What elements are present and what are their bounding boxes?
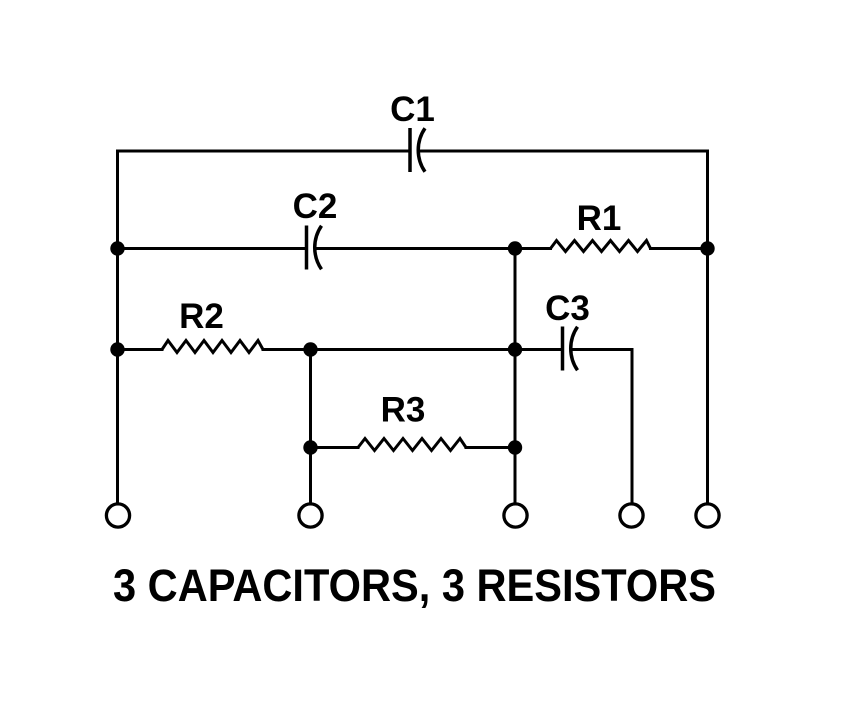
resistor R1 <box>551 241 651 252</box>
wire row3 right of C3 <box>574 348 633 351</box>
wire column D down <box>631 350 634 504</box>
wire column B down <box>309 350 312 504</box>
node junction dot row4 left <box>303 440 317 454</box>
terminal 4 <box>620 504 643 527</box>
node junction dot row2 right <box>700 241 714 255</box>
capacitor C1 <box>410 128 425 172</box>
node junction dot row3 right <box>508 342 522 356</box>
capacitor C2 <box>307 226 322 270</box>
wire top rail left of C1 <box>118 150 409 153</box>
terminal 5 <box>696 504 719 527</box>
terminal 2 <box>299 504 322 527</box>
wire row2 C2 to R1 <box>318 247 551 250</box>
svg-text:3 CAPACITORS, 3 RESISTORS: 3 CAPACITORS, 3 RESISTORS <box>113 560 716 611</box>
wire left rail <box>116 151 119 504</box>
resistor R2 <box>162 341 263 353</box>
resistor R3 <box>358 439 466 451</box>
wire row4 R3 to column C <box>466 446 515 449</box>
wire right rail <box>706 151 709 504</box>
terminal 1 <box>106 504 129 527</box>
node junction dot row3 left <box>110 342 124 356</box>
wire top rail right of C1 <box>421 150 708 153</box>
wire row2 left of C2 <box>118 247 306 250</box>
svg-text:R1: R1 <box>577 199 622 238</box>
node junction dot row2 mid <box>508 241 522 255</box>
svg-text:C1: C1 <box>390 90 435 129</box>
wire row3 left rail to R2 <box>118 348 163 351</box>
svg-text:R3: R3 <box>381 391 426 430</box>
node junction dot row3 mid <box>303 342 317 356</box>
node junction dot row2 left <box>110 241 124 255</box>
terminal 3 <box>504 504 527 527</box>
node junction dot row4 right <box>508 440 522 454</box>
capacitor C3 <box>563 327 578 371</box>
wire row3 R2 to C3 <box>263 348 561 351</box>
svg-text:C3: C3 <box>545 289 590 328</box>
wire column C down <box>514 249 517 504</box>
wire row4 left of R3 <box>311 446 359 449</box>
wire row2 R1 to right rail <box>651 247 708 250</box>
svg-text:R2: R2 <box>179 297 224 336</box>
svg-text:C2: C2 <box>293 187 338 226</box>
